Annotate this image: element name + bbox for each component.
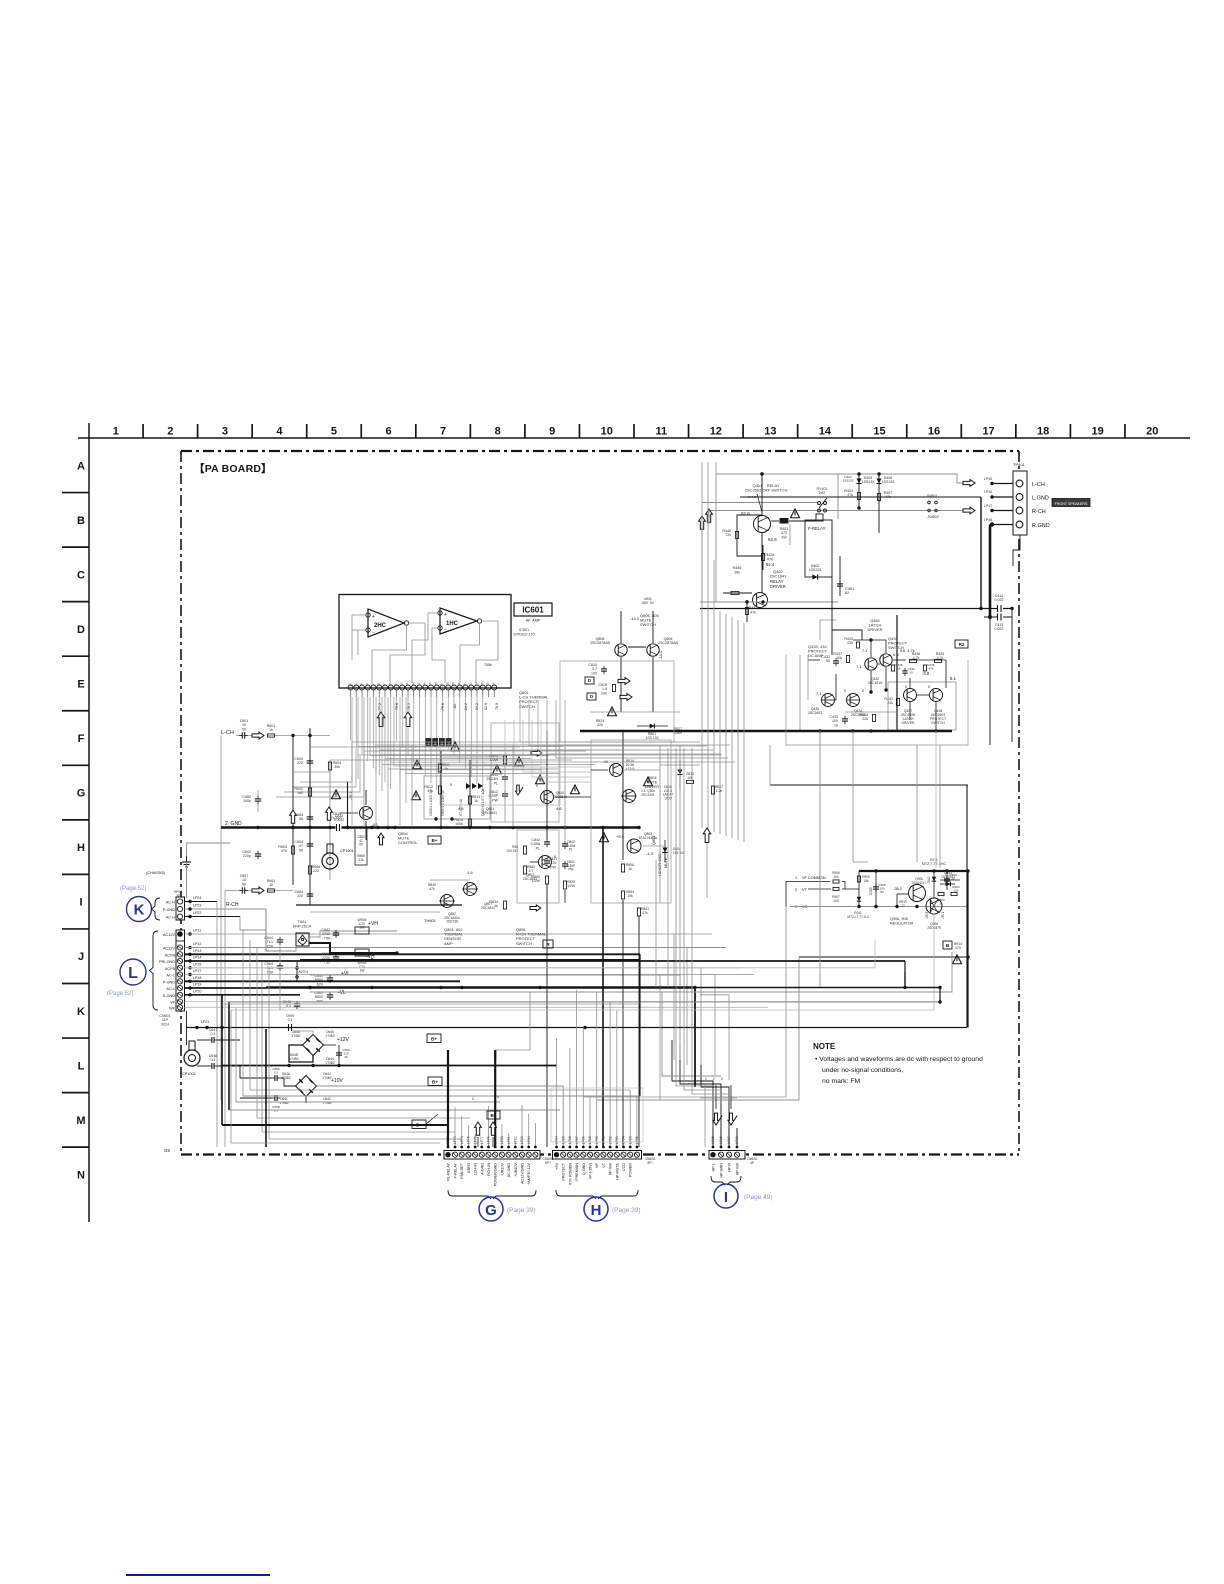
connector body lower stub xyxy=(1013,535,1020,566)
capacitor C650 out xyxy=(336,1052,342,1054)
svg-text:1T4B2: 1T4B2 xyxy=(289,1057,299,1061)
svg-text:LP77: LP77 xyxy=(480,1136,484,1144)
svg-text:+VH: +VH xyxy=(368,921,378,927)
svg-text:82.5: 82.5 xyxy=(768,537,777,542)
svg-text:LP12: LP12 xyxy=(193,942,201,946)
capacitor C604 below xyxy=(307,893,313,895)
svg-text:20: 20 xyxy=(1146,426,1158,438)
svg-text:AC12V: AC12V xyxy=(163,947,175,951)
resistor R445 xyxy=(891,665,894,671)
svg-text:LP11: LP11 xyxy=(193,929,201,933)
svg-text:-77.2: -77.2 xyxy=(378,703,382,711)
wire feeds I connector bends xyxy=(676,987,713,1086)
svg-text:39k: 39k xyxy=(334,765,340,769)
pin I1 HP-L xyxy=(710,1152,715,1157)
bridge rectifier D645-648 +12V xyxy=(303,1035,324,1056)
wire right stairs lower xyxy=(505,720,591,762)
wire loop around relay section xyxy=(716,474,838,602)
svg-text:+: + xyxy=(444,612,447,618)
wire relay coil drop xyxy=(789,524,791,545)
svg-text:2SC1841: 2SC1841 xyxy=(481,906,495,910)
wire ic internal feedback 1HC xyxy=(412,613,440,683)
wire protect cluster frame xyxy=(786,655,968,745)
capacitor C648b xyxy=(294,1003,300,1005)
pin I2 HP-GND xyxy=(718,1152,723,1157)
svg-text:LP92: LP92 xyxy=(608,1136,612,1144)
svg-text:LP21: LP21 xyxy=(201,1020,209,1024)
resistor R613 xyxy=(291,846,294,854)
wire thick rail y731 xyxy=(580,730,952,733)
wire ic ladder horizontals dense xyxy=(370,746,520,748)
wire verticals center xyxy=(440,750,442,827)
svg-text:MUTE: MUTE xyxy=(664,857,668,868)
arrow up input column 1 xyxy=(290,810,297,823)
svg-text:2SC2603: 2SC2603 xyxy=(808,711,822,715)
svg-text:470: 470 xyxy=(281,849,287,853)
wire horizontals center xyxy=(441,756,505,758)
pin G13 +AMP30.12V xyxy=(526,1152,531,1157)
svg-text:LP14: LP14 xyxy=(193,956,201,960)
arrow up below ic 2 xyxy=(404,712,411,727)
svg-text:4.6: 4.6 xyxy=(556,806,562,811)
svg-text:LP94: LP94 xyxy=(622,1136,626,1144)
svg-text:HP-GND: HP-GND xyxy=(720,1163,724,1178)
badge B+ 12V xyxy=(427,1034,441,1043)
svg-text:1k: 1k xyxy=(269,883,273,887)
svg-text:1T4B2: 1T4B2 xyxy=(279,1101,289,1105)
wire gray horizontals left of amp xyxy=(310,746,420,748)
svg-text:LP22: LP22 xyxy=(193,911,201,915)
svg-text:470: 470 xyxy=(955,946,961,950)
wire lower horizontal y1004 xyxy=(222,1003,640,1005)
svg-text:11: 11 xyxy=(655,426,667,438)
svg-text:P-GND: P-GND xyxy=(163,908,175,912)
svg-text:Q.GND: Q.GND xyxy=(582,1163,586,1175)
board outline dash-dot border xyxy=(181,450,1019,452)
pin G9 -UN10V xyxy=(499,1152,504,1157)
transistor Q436 xyxy=(847,694,860,707)
pin AC-L xyxy=(177,985,182,990)
svg-text:LP81: LP81 xyxy=(507,1136,511,1144)
svg-text:LP96: LP96 xyxy=(635,1136,639,1144)
pin G10 AC.GND xyxy=(506,1152,511,1157)
capacitor C650b xyxy=(274,1075,276,1081)
svg-text:82.4: 82.4 xyxy=(766,562,775,567)
svg-text:B+: B+ xyxy=(431,838,437,843)
wire horizontal y862 segment xyxy=(853,861,868,863)
footer blue rule xyxy=(126,1574,270,1576)
pin WF xyxy=(177,1005,182,1010)
svg-text:B+: B+ xyxy=(490,1113,496,1118)
svg-text:220p: 220p xyxy=(243,854,251,858)
capacitor C648 xyxy=(211,1063,213,1069)
wire thick x905 down join xyxy=(904,972,906,988)
svg-text:LP89: LP89 xyxy=(588,1136,592,1144)
svg-text:5: 5 xyxy=(331,426,337,438)
wire thick R.GND vertical xyxy=(989,525,992,618)
jump circle L xyxy=(120,959,146,985)
svg-text:G: G xyxy=(77,788,86,800)
capacitor C661 xyxy=(327,994,333,996)
svg-text:82: 82 xyxy=(845,591,849,595)
wire input vertical x330 xyxy=(329,760,331,880)
wire +VL rail xyxy=(310,975,680,1060)
badge B+ 10V xyxy=(428,1077,442,1086)
resistor R668 xyxy=(308,866,311,874)
svg-text:12: 12 xyxy=(710,426,722,438)
capacitor C813 series on gnd rail xyxy=(336,824,342,832)
jumper boxes row xyxy=(426,739,431,747)
svg-text:1T4B2: 1T4B2 xyxy=(325,1034,335,1038)
svg-text:0.022: 0.022 xyxy=(995,627,1004,631)
choke WR06 xyxy=(355,949,369,956)
svg-text:50: 50 xyxy=(242,727,246,731)
resistor R604 xyxy=(328,762,331,770)
wire mid horizontal y905 xyxy=(296,904,462,906)
svg-text:VT: VT xyxy=(602,1162,606,1167)
svg-text:TH601: TH601 xyxy=(424,918,437,923)
wire R-CH feed from below xyxy=(224,891,226,1148)
svg-text:Q906, 908: Q906, 908 xyxy=(890,917,908,921)
svg-text:2.2k: 2.2k xyxy=(716,789,723,793)
svg-text:LP20: LP20 xyxy=(193,989,201,993)
wire hookup x640 down xyxy=(639,954,641,1096)
svg-text:1k: 1k xyxy=(897,667,901,671)
resistor R816 xyxy=(687,780,694,783)
svg-text:680 3V: 680 3V xyxy=(642,601,654,605)
svg-text:50: 50 xyxy=(242,882,246,886)
svg-text:AC12V/GND: AC12V/GND xyxy=(521,1163,525,1184)
diode D820 xyxy=(940,879,960,881)
svg-text:1SS133: 1SS133 xyxy=(882,480,895,484)
svg-text:LP17: LP17 xyxy=(193,969,201,973)
wire L-CH run xyxy=(293,735,330,737)
transformer T601 xyxy=(296,933,309,946)
capacitor C412 xyxy=(997,606,1003,612)
svg-text:2SC1841: 2SC1841 xyxy=(483,811,497,815)
capacitor C433 xyxy=(842,718,848,720)
svg-text:100V: 100V xyxy=(664,796,672,800)
svg-text:LP87: LP87 xyxy=(575,1136,579,1144)
svg-text:56: 56 xyxy=(299,817,303,821)
pin AC-L xyxy=(177,972,182,977)
svg-text:2SC2878AB: 2SC2878AB xyxy=(590,641,610,645)
svg-text:220: 220 xyxy=(297,894,303,898)
svg-text:-24.2: -24.2 xyxy=(464,703,468,711)
wire gray drop x875 xyxy=(874,940,876,968)
wire amp frame 3 xyxy=(591,740,671,903)
svg-text:+: + xyxy=(372,614,375,620)
svg-text:R2: R2 xyxy=(959,642,965,647)
svg-text:LP76: LP76 xyxy=(473,1136,477,1144)
svg-text:F/REMAIN: F/REMAIN xyxy=(575,1163,579,1181)
svg-text:G: G xyxy=(485,1202,497,1219)
svg-text:8: 8 xyxy=(495,426,501,438)
svg-text:10k: 10k xyxy=(836,656,842,660)
diode D806 bottom xyxy=(940,883,955,885)
svg-text:FRONT SPEAKERS: FRONT SPEAKERS xyxy=(1055,502,1088,506)
brace I xyxy=(711,1176,741,1185)
svg-text:I: I xyxy=(724,1189,728,1206)
svg-text:no mark: FM: no mark: FM xyxy=(822,1078,860,1085)
wire LP13 bend down xyxy=(639,954,641,960)
svg-text:−: − xyxy=(372,630,375,636)
transistor Q438 protect switch xyxy=(930,689,943,702)
wire fan from ic pins down xyxy=(350,697,352,740)
svg-text:A: A xyxy=(77,460,85,472)
pin G14 nc xyxy=(533,1152,538,1157)
svg-text:6: 6 xyxy=(385,426,391,438)
svg-text:F-RELAY: F-RELAY xyxy=(454,1162,458,1178)
node LP22 xyxy=(185,916,241,918)
svg-text:E: E xyxy=(77,678,84,690)
svg-text:1: 1 xyxy=(705,1077,707,1081)
wire from P-GND xyxy=(185,980,461,982)
wire drops to connector I xyxy=(712,1128,714,1147)
svg-text:B: B xyxy=(77,515,85,527)
svg-text:LP84: LP84 xyxy=(555,1136,559,1144)
wire R-CH route xyxy=(240,917,266,931)
svg-text:5P?: 5P? xyxy=(545,1161,551,1165)
svg-text:LP18: LP18 xyxy=(193,976,201,980)
wire stub to rail xyxy=(896,615,898,731)
wire branch from rail y731 down x820 xyxy=(819,731,821,987)
wire x280 drop xyxy=(279,972,281,1010)
svg-text:LP19: LP19 xyxy=(193,983,201,987)
wire LP14 drop xyxy=(904,961,906,972)
wire lower horizontal y1010 xyxy=(229,1009,800,1011)
signal arrow to LP47 xyxy=(963,507,975,514)
pin AC-H 1 xyxy=(177,899,182,904)
svg-text:LP78: LP78 xyxy=(487,1136,491,1144)
diode D815 xyxy=(664,840,666,862)
separator line in connector xyxy=(176,940,185,942)
resistor R448 xyxy=(736,519,738,552)
svg-text:79.6: 79.6 xyxy=(395,703,399,710)
resistor R906 xyxy=(833,880,839,883)
svg-text:R.GND: R.GND xyxy=(1032,523,1050,529)
wire from AC-L xyxy=(185,974,755,976)
wire from S-GND xyxy=(185,994,301,996)
svg-text:1W: 1W xyxy=(360,969,365,973)
svg-text:9: 9 xyxy=(549,426,555,438)
wire cap drop x990 to protect xyxy=(989,617,991,745)
wire L-GND run xyxy=(740,496,981,498)
capacitor C662 xyxy=(333,956,339,958)
badge B+ mid xyxy=(428,836,441,844)
svg-text:L-CH: L-CH xyxy=(221,730,234,736)
svg-text:POWER/GND: POWER/GND xyxy=(494,1163,498,1186)
transistor Q810 xyxy=(541,791,554,804)
wire L-CH feed from below xyxy=(220,736,222,1101)
capacitor C434 xyxy=(902,670,907,672)
wire latch links xyxy=(835,674,837,700)
arrow up input column 2 xyxy=(326,807,333,820)
svg-text:LP93: LP93 xyxy=(615,1136,619,1144)
wire from AC-L xyxy=(185,987,267,989)
transistor Q401 relay off switch xyxy=(754,516,771,533)
svg-text:4.7: 4.7 xyxy=(529,869,534,873)
svg-text:+12V: +12V xyxy=(337,1037,349,1043)
svg-text:LP95: LP95 xyxy=(628,1136,632,1144)
svg-text:17: 17 xyxy=(982,426,994,438)
svg-text:RCH-IN: RCH-IN xyxy=(487,1163,491,1176)
pin H6 VF (-35V) xyxy=(587,1152,592,1157)
svg-text:+UN10V: +UN10V xyxy=(514,1162,518,1177)
capacitor C603 xyxy=(307,760,313,762)
svg-text:4: 4 xyxy=(276,426,283,438)
svg-text:AC-L: AC-L xyxy=(166,974,175,978)
svg-text:+AMP30.12V: +AMP30.12V xyxy=(527,1162,531,1184)
svg-text:2SC2878AB: 2SC2878AB xyxy=(658,641,678,645)
svg-text:R428: R428 xyxy=(765,553,774,557)
svg-text:220: 220 xyxy=(297,761,303,765)
arrow second input xyxy=(252,887,264,894)
resistor R601 xyxy=(268,735,293,737)
svg-text:FAN.DET: FAN.DET xyxy=(460,1162,464,1178)
svg-text:PL: PL xyxy=(494,781,498,785)
svg-text:47k: 47k xyxy=(929,667,934,671)
svg-text:NOTE: NOTE xyxy=(813,1042,836,1051)
resistor R815 xyxy=(468,819,471,827)
svg-text:PW: PW xyxy=(492,798,498,802)
resistor R832 xyxy=(523,846,526,854)
pin I3 HP-R xyxy=(726,1152,731,1157)
svg-text:AC.GND: AC.GND xyxy=(507,1163,511,1178)
svg-text:22: 22 xyxy=(901,904,905,908)
pin G7 RCH-IN xyxy=(486,1152,491,1157)
svg-text:12k: 12k xyxy=(954,889,959,893)
wire gray verticals group x672-696 xyxy=(667,748,669,987)
svg-text:D: D xyxy=(77,624,85,636)
svg-text:100: 100 xyxy=(833,875,839,879)
svg-text:SWITCH: SWITCH xyxy=(516,941,532,946)
svg-text:-79.2: -79.2 xyxy=(349,791,353,800)
svg-text:LP74: LP74 xyxy=(460,1136,464,1144)
wire thick L.GND vertical xyxy=(980,497,982,609)
wire I feeds top xyxy=(704,1085,706,1147)
wire drops to connector G xyxy=(447,1050,449,1147)
wire x300 drop xyxy=(230,1010,232,1143)
wire long left vertical x217 lower xyxy=(216,1100,218,1147)
arrow up G feed 2 xyxy=(490,1122,497,1135)
svg-text:LP88: LP88 xyxy=(735,1136,739,1144)
resistor R829 xyxy=(563,881,566,889)
transistor Q851 xyxy=(464,883,477,896)
svg-text:7.1: 7.1 xyxy=(862,649,867,653)
capacitor C601 xyxy=(236,735,252,737)
svg-text:LP80: LP80 xyxy=(500,1136,504,1144)
wire from VF xyxy=(185,1001,941,1003)
wire Q908 emitter drop xyxy=(800,914,934,1010)
svg-text:82.5: 82.5 xyxy=(484,703,488,710)
wire ic fan long verticals to gnd rail xyxy=(351,745,353,827)
svg-text:10k: 10k xyxy=(627,894,633,898)
svg-text:1T4B2: 1T4B2 xyxy=(322,1101,332,1105)
svg-text:100: 100 xyxy=(591,671,597,675)
svg-text:63V: 63V xyxy=(317,982,324,986)
connector CN601 11pin body xyxy=(176,930,185,1011)
svg-text:2SC1841: 2SC1841 xyxy=(770,574,787,579)
wire VG gray rail xyxy=(790,906,968,908)
resistor R407 xyxy=(877,494,880,501)
pin AC12V xyxy=(177,931,183,937)
svg-text:LP88: LP88 xyxy=(582,1136,586,1144)
resistor R609 xyxy=(308,788,311,796)
pin AC12V xyxy=(177,945,182,950)
wire relay contact run L xyxy=(702,502,818,504)
wire left bracket xyxy=(786,882,808,907)
arrow right amp 2 xyxy=(530,905,541,911)
svg-text:7.1: 7.1 xyxy=(856,664,862,669)
arrow up below ic 1 xyxy=(377,712,384,727)
thermistor CP1002 xyxy=(184,1050,200,1066)
pin G4 EBFD xyxy=(466,1152,471,1157)
wire long rail y1027 xyxy=(186,1027,967,1029)
wire long y745 right xyxy=(560,744,730,746)
svg-text:HP-SW: HP-SW xyxy=(609,1162,613,1175)
svg-text:+VL: +VL xyxy=(341,971,350,977)
bridge rectifier D641-644 +10V xyxy=(296,1076,317,1097)
badge R plus xyxy=(543,940,553,948)
svg-text:VG: VG xyxy=(802,905,808,909)
jack CP1901 xyxy=(322,853,338,869)
wire bridge1 right out xyxy=(324,1044,337,1046)
resistor R444 xyxy=(935,659,942,662)
transistor Q435 xyxy=(822,694,835,707)
svg-text:13: 13 xyxy=(764,426,776,438)
capacitor C682 xyxy=(255,798,261,800)
connector CN604 H body xyxy=(553,1151,642,1160)
signal arrow mid 1 xyxy=(618,678,630,685)
svg-text:-35.2: -35.2 xyxy=(893,886,903,891)
warning marks amp xyxy=(451,742,460,751)
svg-text:22k: 22k xyxy=(358,858,364,862)
capacitor C810 xyxy=(601,668,607,670)
svg-text:AMP: AMP xyxy=(444,941,453,946)
svg-text:CP1901: CP1901 xyxy=(340,849,354,853)
signal arrow mid 2 xyxy=(620,694,632,701)
svg-text:EBFD: EBFD xyxy=(467,1163,471,1173)
svg-text:PW: PW xyxy=(550,865,556,869)
resistor R446b xyxy=(923,665,926,671)
jumper JW701 xyxy=(296,962,298,982)
wire thick rail y1065 xyxy=(221,1065,557,1067)
wire thick rail y960 xyxy=(300,959,640,961)
wire bundle left to right runs xyxy=(222,1124,448,1126)
svg-text:3P?: 3P? xyxy=(647,1161,653,1165)
svg-text:C905: C905 xyxy=(869,887,873,895)
op-amp channel 2HC xyxy=(368,609,404,637)
resistor R903 xyxy=(951,892,957,895)
wire from AC12V xyxy=(185,947,727,949)
resistor R813 xyxy=(468,796,471,804)
resistor R833 xyxy=(523,866,526,874)
svg-text:CCD: CCD xyxy=(622,1163,626,1171)
svg-text:-3.9: -3.9 xyxy=(922,671,930,676)
svg-text:LP72: LP72 xyxy=(446,1136,450,1144)
svg-text:G5: G5 xyxy=(164,1148,171,1153)
svg-text:(Page 39): (Page 39) xyxy=(507,1207,536,1214)
resistor R905 xyxy=(858,871,860,907)
svg-text:47k: 47k xyxy=(429,887,435,891)
pin H10 HP-MUTE xyxy=(614,1152,619,1157)
wire t601 in xyxy=(266,950,280,952)
svg-text:VP: VP xyxy=(595,1162,599,1167)
svg-text:0: 0 xyxy=(844,689,846,693)
svg-text:18: 18 xyxy=(1037,426,1049,438)
resistor R424 xyxy=(857,493,860,500)
